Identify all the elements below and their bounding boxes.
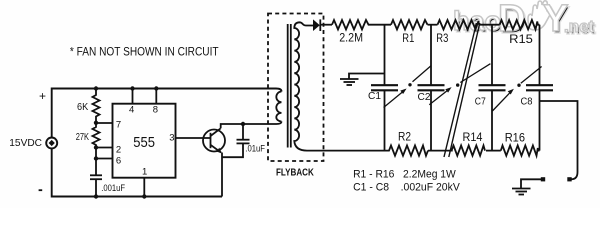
spark gap SG1 left electrode <box>541 177 545 181</box>
node column 2 <box>430 25 432 85</box>
junction on top rail at resistor divider <box>94 86 98 90</box>
junction C9 at bottom rail <box>94 194 98 198</box>
node column 3 <box>491 25 493 85</box>
svg-text:6K: 6K <box>77 101 88 113</box>
svg-text:R15: R15 <box>509 34 533 46</box>
svg-text:R16: R16 <box>505 133 525 145</box>
break line 1 <box>444 23 477 157</box>
watermark haoDIY.net <box>453 0 596 42</box>
pin 1 stub to bottom rail <box>143 178 145 197</box>
label - <box>39 189 43 191</box>
svg-text:.net: .net <box>564 17 595 36</box>
svg-text:+: + <box>39 89 46 103</box>
wire pin3 to Q1 base <box>176 137 211 139</box>
resistor 2.2M <box>332 20 370 29</box>
wire: node to pin6 <box>96 158 113 160</box>
resistor R16 <box>501 146 540 156</box>
spark gap line to node4 <box>521 67 542 84</box>
capacitor C10 .01uF <box>242 124 244 140</box>
spark gap arrow C1-C2 <box>384 91 404 107</box>
svg-text:6: 6 <box>116 155 121 166</box>
svg-text:C2: C2 <box>418 92 431 103</box>
pin 4 stub <box>132 89 134 104</box>
secondary winding <box>294 22 384 150</box>
wire R1 to R3 <box>428 24 438 26</box>
junction pin6 node <box>94 156 98 160</box>
svg-text:C8: C8 <box>521 97 533 108</box>
terminal J1 15VDC <box>46 138 57 149</box>
wire: node to pin2 <box>96 147 113 149</box>
svg-text:FLYBACK: FLYBACK <box>276 166 314 178</box>
hand glyph of watermark <box>528 1 552 30</box>
svg-text:R3: R3 <box>436 33 448 45</box>
wire R2 to R14 <box>428 150 453 152</box>
resistor R-6K <box>93 89 100 123</box>
spark gap arrow C2-C7 <box>429 90 448 105</box>
spark gap SG1 right electrode <box>567 177 571 181</box>
svg-text:1: 1 <box>142 167 147 178</box>
svg-text:7: 7 <box>116 120 121 131</box>
wire: top rail from 15VDC + to flyback primary top <box>52 89 282 138</box>
svg-text:C7: C7 <box>475 97 486 108</box>
capacitor C8 <box>526 84 553 86</box>
transistor Q1 <box>203 130 225 152</box>
svg-text:R1 - R16 2.2Meg 1W: R1 - R16 2.2Meg 1W <box>353 168 456 180</box>
capacitor C1 <box>371 84 398 86</box>
junction 6K/27K node <box>94 121 98 125</box>
capacitor C7 <box>479 84 506 86</box>
core <box>287 24 289 148</box>
diode D1 <box>313 19 320 31</box>
spark gap arrow C7-C8 <box>492 92 510 111</box>
wire: Q1 collector up to primary bottom <box>221 122 282 129</box>
pin 8 stub <box>155 89 157 104</box>
svg-text:.001uF: .001uF <box>101 183 125 194</box>
svg-text:R14: R14 <box>463 132 484 144</box>
break line 2 <box>449 23 480 157</box>
primary winding <box>276 92 281 122</box>
svg-text:15VDC: 15VDC <box>9 137 42 149</box>
spark gap line to node2 <box>413 66 432 82</box>
wire R3 to R15 <box>479 24 500 26</box>
svg-text:3: 3 <box>169 133 174 144</box>
resistor R-27K <box>93 123 100 148</box>
capacitor C2 <box>418 84 445 86</box>
svg-text:27K: 27K <box>76 131 89 143</box>
ground G1 <box>340 79 359 85</box>
resistor R15 <box>500 20 540 29</box>
resistor R2 <box>385 146 429 156</box>
wire to ground G1 <box>349 74 385 80</box>
svg-text:R2: R2 <box>398 132 411 144</box>
wire: node down to C9 <box>95 159 97 176</box>
wire left electrode to ground G2 <box>521 179 541 188</box>
junction C10 top <box>241 122 245 126</box>
svg-text:4: 4 <box>129 104 134 115</box>
svg-text:R1: R1 <box>402 33 414 45</box>
wire: left rail bottom from terminal to bottom rail <box>52 149 222 197</box>
transformer T1 dashed box <box>268 14 324 162</box>
wire 2.2M to node1 <box>370 24 392 26</box>
svg-text:.01uF: .01uF <box>245 144 265 155</box>
wire: node down to pin6 node <box>95 148 97 159</box>
svg-text:2.2M: 2.2M <box>339 31 363 45</box>
node column 4 <box>539 25 541 85</box>
resistor R3 <box>438 20 479 29</box>
svg-text:8: 8 <box>153 104 158 115</box>
svg-text:C1 - C8 .002uF 20kV: C1 - C8 .002uF 20kV <box>353 181 460 193</box>
svg-text:hao: hao <box>453 6 501 36</box>
wire: Q1 emitter down to bottom rail <box>221 153 223 197</box>
capacitor C9 .001uF <box>90 174 102 176</box>
wire: node to pin7 <box>96 122 113 124</box>
svg-text:2: 2 <box>116 144 121 155</box>
ground G2 <box>512 189 531 195</box>
junction pin2 node <box>94 145 98 149</box>
wire R14 to R16 <box>486 150 501 152</box>
wire diode to 2.2M <box>320 24 332 26</box>
resistor R14 <box>452 146 486 156</box>
svg-text:555: 555 <box>133 135 155 151</box>
svg-text:* FAN NOT SHOWN IN CIRCUIT: * FAN NOT SHOWN IN CIRCUIT <box>70 44 219 58</box>
wire HV takeoff from node column 4 <box>540 101 578 179</box>
spark gap line to node3 <box>460 64 490 83</box>
node column 1 <box>384 25 386 85</box>
op-amp U1 555 box <box>113 104 176 178</box>
resistor R1 <box>391 20 428 29</box>
svg-text:C1: C1 <box>368 91 381 102</box>
